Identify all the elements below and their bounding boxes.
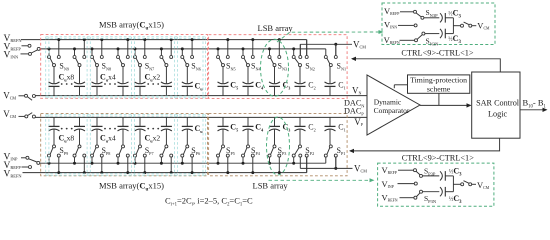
svg-text:Timing-protection: Timing-protection — [410, 75, 467, 84]
svg-text:Cux4: Cux4 — [100, 134, 116, 144]
svg-text:MSB array(Cux15): MSB array(Cux15) — [99, 180, 164, 192]
svg-text:Cux8: Cux8 — [59, 73, 75, 83]
svg-text:Ci+1=2Ci, i=2–5, C2=C1=C: Ci+1=2Ci, i=2–5, C2=C1=C — [165, 195, 253, 207]
svg-text:CTRL<9>-CTRL<1>: CTRL<9>-CTRL<1> — [402, 153, 475, 162]
svg-text:DACP: DACP — [344, 106, 364, 116]
svg-text:B10- B1: B10- B1 — [523, 98, 547, 110]
svg-text:Comparator: Comparator — [374, 106, 410, 115]
svg-text:MSB array(Cux15): MSB array(Cux15) — [99, 20, 164, 32]
svg-text:scheme: scheme — [427, 85, 451, 94]
svg-text:Cux4: Cux4 — [100, 73, 116, 83]
svg-text:SAR Control: SAR Control — [476, 99, 520, 108]
svg-text:Cux2: Cux2 — [145, 73, 161, 83]
svg-text:LSB array: LSB array — [258, 23, 294, 33]
svg-text:Cux2: Cux2 — [145, 134, 161, 144]
svg-text:Cux8: Cux8 — [59, 134, 75, 144]
svg-text:CTRL<9>-CTRL<1>: CTRL<9>-CTRL<1> — [401, 49, 474, 58]
svg-text:Dynamic: Dynamic — [374, 97, 402, 106]
svg-text:Logic: Logic — [488, 109, 507, 118]
svg-text:LSB array: LSB array — [253, 180, 289, 190]
